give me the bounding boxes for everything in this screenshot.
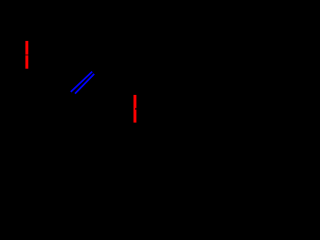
bond C2-I2 (black, invisible on black) [97, 67, 130, 91]
bond I1-C1 (black, invisible on black) [31, 72, 66, 96]
iodine label I1 (red) [25, 41, 28, 69]
notch on I2 glyph [135, 108, 136, 110]
double bond C1=C2 line 2 (blue) [75, 74, 94, 94]
notch on I1 glyph [25, 54, 28, 55]
iodine label I2 (red) [134, 95, 137, 123]
double bond C1=C2 line 1 (blue) [71, 72, 92, 92]
